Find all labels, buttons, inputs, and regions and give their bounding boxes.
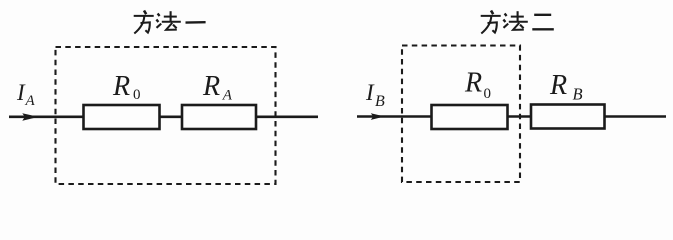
resistor R_B [531, 105, 605, 129]
wire with current I_A [9, 116, 318, 119]
char 方 of left title [134, 11, 154, 34]
char 法 of right title [503, 11, 527, 30]
current arrow I_A [22, 113, 38, 121]
resistor R0 (left) [84, 105, 160, 129]
title 方法二 (Method 2), hand-drawn CJK glyphs [481, 11, 554, 34]
svg-text:R: R [549, 70, 567, 101]
svg-text:B: B [573, 85, 583, 104]
svg-text:A: A [222, 88, 233, 104]
svg-text:A: A [25, 93, 36, 109]
svg-text:R: R [464, 68, 482, 99]
title 方法一 (Method 1), hand-drawn CJK glyphs [134, 11, 206, 34]
svg-text:R: R [112, 71, 130, 102]
svg-text:R: R [202, 71, 220, 102]
svg-text:I: I [365, 80, 375, 105]
svg-text:0: 0 [133, 87, 141, 103]
char 一 of left title [186, 21, 206, 24]
resistor R0 (right) [432, 105, 508, 129]
char 法 of left title [156, 11, 180, 30]
resistor R_A [182, 105, 256, 129]
dashed enclosure box (method 1) [56, 47, 276, 184]
char 二 of right title [532, 15, 554, 29]
svg-text:0: 0 [484, 86, 492, 102]
svg-text:B: B [375, 93, 385, 110]
dashed enclosure box (method 2) [402, 46, 520, 183]
char 方 of right title [481, 11, 501, 34]
wire with current I_B [357, 115, 666, 118]
svg-text:I: I [16, 80, 26, 105]
current arrow I_B [371, 113, 385, 120]
